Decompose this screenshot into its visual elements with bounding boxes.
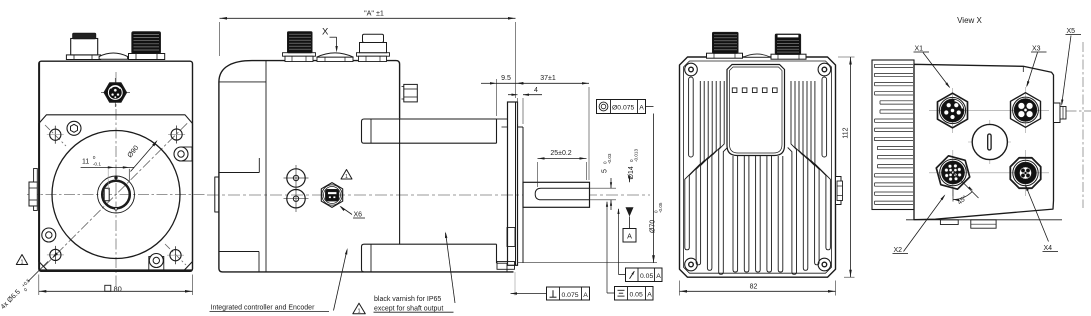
svg-text:1: 1 <box>345 174 348 180</box>
svg-text:4: 4 <box>534 87 538 94</box>
front view: screw bottom-left <box>42 228 56 242</box>
feature control frame concentricity 0.075 A <box>597 100 654 114</box>
rear view: LED windows on panel <box>732 88 777 93</box>
side view: connector knurled on housing top <box>283 32 316 62</box>
side view: output shaft <box>523 182 590 207</box>
rear view: heatsink fins left side jogging <box>685 81 728 274</box>
note black varnish for IP65 <box>374 232 456 313</box>
rear view: corner screw bottom-right <box>818 258 831 271</box>
side view: controller housing outline <box>219 61 514 272</box>
front view: dimension 11 -0.1 shaft flat <box>81 155 134 190</box>
svg-text:X3: X3 <box>1032 46 1041 53</box>
svg-text:X6: X6 <box>354 212 363 219</box>
view X: connector X5 on right edge <box>1054 103 1067 123</box>
svg-text:A: A <box>583 292 588 299</box>
view X: connector X1 <box>938 93 968 128</box>
rear view: top connector knurled left <box>707 32 743 58</box>
front view: motor pilot circle <box>52 131 180 259</box>
svg-text:X: X <box>322 27 329 38</box>
svg-text:11: 11 <box>82 159 89 166</box>
note integrated controller and encoder <box>210 248 348 312</box>
view X: connector X3 <box>1011 93 1041 128</box>
dimension 112 height <box>838 57 855 277</box>
svg-text:0.05: 0.05 <box>630 292 643 299</box>
svg-text:Ø70: Ø70 <box>650 220 657 233</box>
front view: mounting hole bottom-left <box>47 246 64 264</box>
side view: motor body bottom band <box>362 244 508 272</box>
front view: shaft with keyway flat <box>102 181 130 209</box>
view X: label X5 with leader <box>1061 28 1081 106</box>
rear view: corner screw top-left <box>685 63 698 76</box>
view X: angle dimension 45 degrees <box>953 173 979 207</box>
dimension overall length "A" plus/minus 1 <box>220 8 516 98</box>
svg-text:37±1: 37±1 <box>540 75 556 82</box>
side view: connector X6 on housing face <box>321 183 342 208</box>
dimension 25 plus/minus 0.2 keyway length <box>538 150 587 187</box>
warning triangle note 1 <box>353 303 366 314</box>
side view: heatsink mid seam <box>219 158 259 173</box>
rear view: central connector panel <box>727 65 785 156</box>
side view: front flange plate <box>497 102 518 269</box>
dimension diameter 14 -0.013 shaft <box>628 149 639 214</box>
side view: label X6 with leader <box>340 206 366 219</box>
svg-text:A: A <box>627 232 632 241</box>
dimension 4 pilot boss height <box>508 87 542 124</box>
rear view: side connector X5 bump on right edge <box>836 177 843 205</box>
view X: centerline dash-dot right <box>1067 42 1091 208</box>
front view: mounting hole bottom-right <box>167 246 184 264</box>
side view: motor body top band <box>362 119 497 143</box>
view X: label X4 with leader <box>1025 185 1058 253</box>
front view: shaft outer circle <box>98 176 135 213</box>
svg-text:-0.03: -0.03 <box>607 153 612 164</box>
view X: connector row centerlines <box>929 87 1049 196</box>
rear view: corner screw bottom-left <box>685 258 698 271</box>
svg-text:Integrated controller and Enco: Integrated controller and Encoder <box>211 305 316 312</box>
svg-text:0.075: 0.075 <box>562 292 579 299</box>
dimension 82 width <box>680 281 836 296</box>
front view: screw bottom-right <box>149 254 164 272</box>
svg-text:112: 112 <box>842 127 849 138</box>
view X: connector X4 <box>1010 158 1040 188</box>
side view: housing corner cap seam <box>219 81 266 83</box>
front view: flag note triangle 1 <box>16 255 27 266</box>
side view: motor axis centerline <box>207 194 650 196</box>
svg-text:except for shaft output: except for shaft output <box>374 305 443 312</box>
view X: heatsink fin comb left side <box>872 60 914 210</box>
svg-text:-0.05: -0.05 <box>658 202 663 213</box>
svg-text:-0.1: -0.1 <box>93 161 102 167</box>
dimension 5 -0.03 keyway width <box>590 153 617 210</box>
svg-text:80: 80 <box>114 285 122 294</box>
dimension diameter 70 -0.05 pilot <box>517 114 663 263</box>
front view: screw top-left <box>67 121 81 135</box>
side view: shaft keyway slot <box>535 188 589 200</box>
side view: encoder connector bump on motor top <box>402 84 418 102</box>
svg-text:1: 1 <box>357 309 360 315</box>
side view: LED indicator top <box>284 165 309 191</box>
svg-text:82: 82 <box>750 284 758 291</box>
side view: heatsink seam vertical <box>265 61 267 272</box>
dimension 9.5 flange offset <box>481 75 589 180</box>
side view: X6 module edge protrusion <box>215 177 219 212</box>
svg-text:View X: View X <box>957 16 982 25</box>
side view: pilot boss diameter 70 <box>497 119 524 263</box>
rear view: body outline octagon <box>680 57 836 277</box>
svg-text:X1: X1 <box>915 46 924 53</box>
front view: dimension square 80 <box>39 275 193 296</box>
feature control frame perpendicularity 0.075 A <box>511 272 590 300</box>
front view: top dome cap <box>99 53 128 59</box>
view X: connector X2 <box>936 156 969 189</box>
svg-text:9.5: 9.5 <box>501 75 511 82</box>
view X: base line and mounting tabs <box>906 220 1062 228</box>
feature control frame symmetry 0.05 A keyway <box>606 201 653 300</box>
svg-text:5: 5 <box>602 169 609 173</box>
rear view: heatsink fin slot stub top-right <box>822 77 827 157</box>
svg-text:X2: X2 <box>894 247 903 254</box>
side view: view arrow label X <box>322 27 338 53</box>
svg-text:A: A <box>647 292 652 299</box>
dimension 37 plus/minus 1 shaft length <box>517 75 590 84</box>
rear view: heatsink fins right side jogging <box>788 81 831 274</box>
rear view: top connector knurled right <box>771 34 806 59</box>
view X: label X1 with leader <box>914 46 951 89</box>
front view: top connector left (white with cap) <box>66 33 100 59</box>
svg-text:"A" ±1: "A" ±1 <box>364 8 384 17</box>
view X: label X2 with leader <box>893 194 946 254</box>
front view: note 4x diameter 6.5 holes <box>0 262 48 311</box>
front view: controller body outline <box>39 61 193 271</box>
svg-text:-0.013: -0.013 <box>634 149 639 162</box>
rear view: heatsink fin slot stub top-left <box>689 77 694 157</box>
front view: X6 connector tab on left edge <box>29 169 37 211</box>
svg-text:1: 1 <box>21 259 24 265</box>
svg-text:X4: X4 <box>1044 245 1053 252</box>
side view: dome connector X on housing top <box>317 53 354 62</box>
datum A feature symbol on shaft <box>623 207 636 242</box>
front view: mounting hole top-right <box>168 126 185 144</box>
svg-text:Ø14: Ø14 <box>628 166 635 179</box>
side view: warning triangle near X6 <box>341 170 352 181</box>
rear view: corner screw top-right <box>818 63 831 76</box>
svg-text:X5: X5 <box>1067 28 1076 35</box>
side view: connector with cap on housing top <box>357 34 390 61</box>
feature control frame circular runout 0.05 A shaft <box>617 208 662 282</box>
svg-text:Ø0.075: Ø0.075 <box>612 105 635 112</box>
svg-text:A: A <box>656 273 661 280</box>
front view: shaft set-screw dots <box>115 177 118 211</box>
side view: LED indicator bottom <box>284 187 309 213</box>
svg-text:A: A <box>639 105 644 112</box>
svg-text:0.05: 0.05 <box>640 273 653 280</box>
front view: dimension bolt circle diameter 90 <box>52 140 158 258</box>
front view: top connector right (knurled) <box>129 32 165 60</box>
front view: mounting hole top-left <box>47 126 64 144</box>
rear view: heatsink fin slots below panel <box>733 156 783 272</box>
rear view: top dome <box>743 54 770 57</box>
svg-text:black varnish for IP65: black varnish for IP65 <box>374 296 441 303</box>
front view: screw top-right <box>174 147 192 161</box>
svg-text:0: 0 <box>93 155 96 161</box>
front view: flange square with chamfered corners <box>39 115 193 271</box>
side view: housing bottom lip seam <box>219 252 259 272</box>
view X: end face outline <box>914 64 1054 219</box>
front view: centerlines <box>27 72 205 288</box>
front view: hex plug on controller face <box>101 78 130 107</box>
view X: label X3 with leader <box>1026 46 1046 88</box>
view X: center potentiometer <box>972 124 1007 159</box>
svg-text:25±0.2: 25±0.2 <box>550 150 571 157</box>
side view: motor front edge line <box>399 118 401 244</box>
